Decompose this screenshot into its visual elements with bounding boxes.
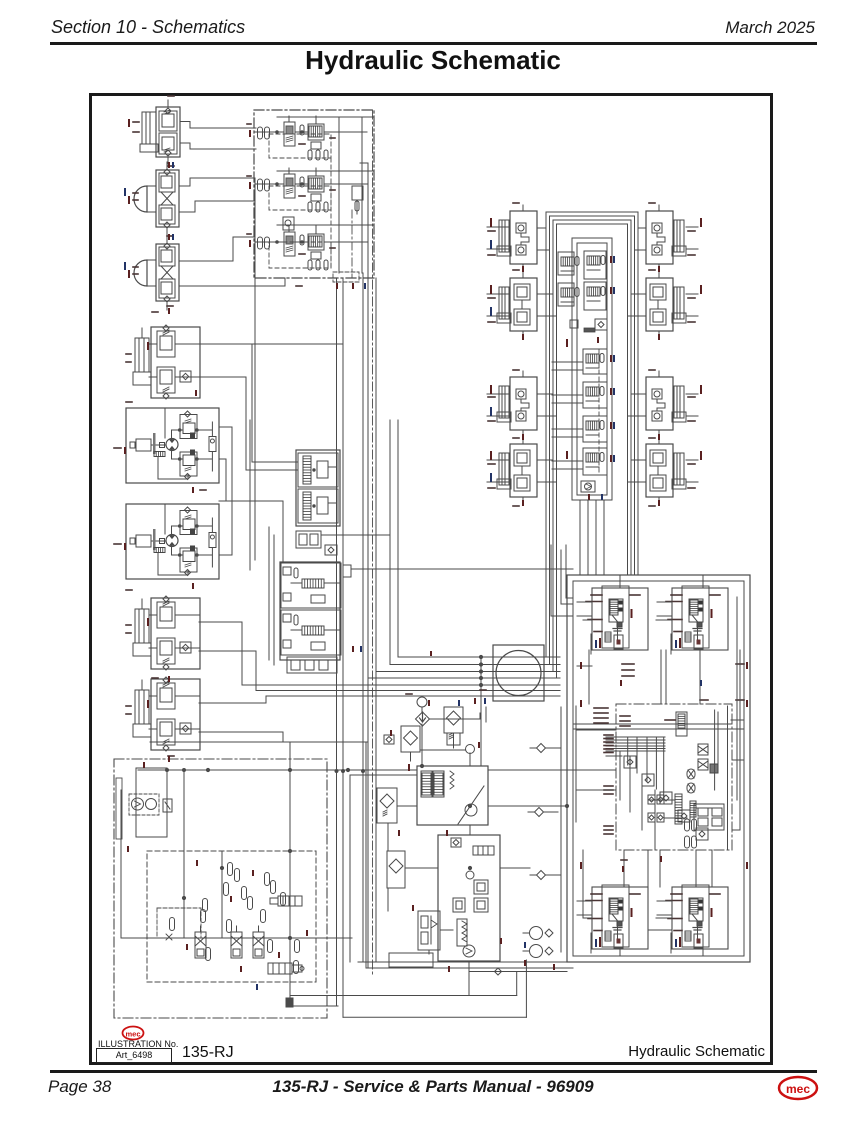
charge pump P1 [466, 745, 475, 754]
wire [468, 961, 470, 996]
directional valve DV1 [281, 563, 341, 608]
cascade check valves [624, 756, 636, 768]
valve stack outer frame [572, 238, 612, 500]
axle lock cylinder block CYL2 [126, 325, 200, 399]
stack label block [584, 328, 595, 332]
manifold bottom port box [333, 272, 359, 282]
shuttle row [473, 846, 494, 855]
tank return junction [286, 998, 293, 1007]
pilot capsule A [687, 769, 695, 779]
gear pump P3 [132, 798, 144, 810]
wire [120, 790, 122, 938]
wire [487, 293, 510, 295]
wire [582, 850, 584, 918]
wire [623, 850, 625, 887]
wire [199, 651, 256, 691]
wire [487, 226, 510, 228]
solenoid block SB2 [453, 898, 465, 912]
slave cylinder block CYL9 [646, 205, 695, 270]
boom section valve SV3 [584, 251, 606, 279]
small box [389, 953, 433, 967]
port labels tank [143, 762, 145, 768]
pilot capsule B [687, 783, 695, 793]
suction strainer box [147, 851, 316, 982]
return filter F1 [416, 712, 430, 726]
wire [200, 343, 343, 345]
brake release valve BV2 [231, 926, 242, 958]
tiny port labels [594, 707, 608, 709]
check pair B [648, 813, 655, 822]
brake cylinder block CYL4 [126, 677, 200, 751]
rotate section valve SV7 [583, 382, 607, 408]
pump pair box [129, 794, 159, 815]
test port block [343, 565, 351, 577]
brake release valve BV1 [195, 926, 206, 958]
level section valve SV9 [583, 448, 607, 475]
filter F3 [401, 726, 420, 752]
capsule pair A [685, 819, 690, 831]
outrigger control enclosure [567, 575, 750, 962]
mec logo illustration tag [123, 1027, 144, 1040]
coupler D3 [537, 871, 546, 880]
port labels manifold [249, 130, 251, 137]
directional valve DV2 [281, 610, 341, 655]
filter F5 [387, 851, 405, 888]
reservoir frame [136, 768, 167, 837]
filter F2 [444, 707, 463, 733]
wire [583, 619, 592, 621]
wire [421, 724, 423, 766]
coupler D1 [537, 744, 546, 753]
wire [199, 696, 266, 703]
wire [179, 178, 255, 186]
coupling CP1 [163, 799, 172, 812]
power unit enclosure [114, 759, 327, 1018]
spring relief coil [462, 921, 467, 942]
wire [219, 501, 283, 562]
boom section valve SV2 [558, 252, 579, 275]
valve bar B [690, 801, 696, 817]
manifold section row 3 [247, 226, 367, 270]
wire [480, 657, 482, 766]
manifold row2 pilot box [269, 186, 331, 210]
wire [537, 227, 546, 229]
relief valve RV1 [581, 481, 595, 492]
wire [389, 420, 391, 665]
manifold comb wires [606, 736, 665, 738]
outrigger cylinder block LF [577, 586, 648, 654]
wire [180, 122, 256, 129]
wire [619, 751, 621, 800]
solenoid block SB3 [474, 898, 488, 912]
solenoid valve SV10 [676, 712, 687, 736]
wire [358, 961, 573, 963]
check valve CK1 [384, 735, 394, 744]
wire [219, 523, 232, 555]
outrigger cylinder block RF [657, 586, 728, 654]
steer cylinder block CYL3 [126, 596, 200, 670]
wire [336, 278, 338, 1006]
coupler D2 [535, 808, 544, 817]
wire [183, 770, 185, 938]
wire [397, 805, 417, 807]
master cylinder block CYL10 [646, 272, 695, 337]
dual check valve block [296, 531, 321, 548]
junction dots [206, 768, 209, 771]
wire [138, 769, 417, 771]
jib section valve SV5 [584, 282, 606, 310]
port labels bottom center [408, 764, 410, 771]
port labels left blocks2 [168, 162, 170, 168]
wire [577, 729, 616, 731]
shuttle valve SH1 [325, 545, 337, 555]
wire [179, 237, 254, 261]
drive motor right M4 [114, 504, 219, 579]
solenoid block SB1 [474, 880, 488, 894]
proportional valve PV2 [298, 489, 338, 523]
pilot check valve PC1 [595, 319, 607, 330]
crossline relief RV3 [698, 759, 708, 770]
pilot accumulators [228, 863, 233, 876]
wire [219, 427, 232, 523]
solenoid valve SV1 [352, 186, 363, 200]
outrigger cylinder block RR [657, 885, 728, 953]
manifold dashed rail [330, 158, 332, 268]
inner sub box [157, 908, 201, 938]
jib cylinder block CYL5 [488, 205, 537, 270]
capsule pair B [685, 836, 690, 848]
wire [150, 741, 368, 743]
selector valve block [694, 804, 724, 830]
wire [121, 937, 168, 939]
manifold row1 pilot box [269, 134, 331, 158]
port labels left column [128, 119, 130, 127]
wire [487, 459, 510, 461]
wire [537, 459, 553, 461]
outrigger valve manifold [616, 704, 732, 850]
wire [606, 755, 622, 757]
wire [367, 163, 369, 968]
hand pump HP1 [418, 911, 440, 950]
pressure gauge G1 [417, 697, 427, 707]
proportional valve bank frame [296, 450, 340, 526]
svg-text:mec: mec [125, 1030, 140, 1039]
port id labels [168, 95, 174, 97]
wire [537, 293, 553, 295]
gauge G2 [466, 871, 474, 879]
wire [545, 500, 547, 657]
main control manifold enclosure [254, 110, 374, 278]
crossline relief RV2 [698, 744, 708, 755]
port labels swivel [352, 646, 354, 652]
manifold section row 2 [247, 168, 367, 212]
main pump assembly [417, 766, 488, 825]
outrigger cylinder block LR [577, 885, 648, 953]
rotary swivel union SW1 [493, 645, 544, 701]
solenoid pair [710, 764, 718, 773]
platform section valve SV8 [583, 416, 607, 442]
wire [714, 710, 716, 790]
boom lift cylinder block CYL1 [133, 100, 180, 164]
check pair A [648, 795, 655, 804]
manifold inner rails [338, 117, 340, 273]
aux pump group frame [438, 835, 500, 961]
wire [551, 545, 573, 616]
port labels pump top [428, 700, 430, 706]
wire [537, 393, 553, 395]
jib rotate motor M2 [133, 236, 179, 310]
wire [573, 723, 731, 725]
pressure reducing valve PR1 [283, 217, 294, 230]
upper boom cylinder block CYL7 [488, 371, 537, 436]
proportional valve PV1 [298, 453, 338, 487]
wire [546, 212, 638, 575]
drive motor left M3 [114, 408, 219, 483]
stack dashed rail [598, 349, 600, 475]
wire [660, 650, 662, 704]
tiny port labels [622, 663, 634, 665]
jib section valve SV4 [558, 283, 579, 306]
boundary dash-dot [372, 110, 374, 975]
wire [199, 732, 283, 742]
lower boom cylinder block CYL8 [488, 438, 537, 503]
leveling cylinder block CYL12 [646, 438, 695, 503]
wire [387, 823, 389, 851]
telescope section valve SV6 [583, 349, 607, 374]
svg-text:mec: mec [786, 1082, 810, 1096]
wire [588, 650, 590, 704]
auxiliary valve bank frame [280, 562, 340, 660]
wire [579, 500, 581, 575]
manifold row3 pilot box [269, 242, 331, 268]
hand valve HV1 [278, 896, 302, 906]
pilot valve PV3 [451, 838, 461, 847]
port labels outrigger box [580, 662, 582, 669]
tiny port labels [604, 734, 613, 736]
hand valve HV2 [268, 963, 292, 974]
wire [293, 1005, 338, 1007]
wire [398, 656, 560, 658]
valve bar A [675, 794, 682, 824]
mec logo footer [779, 1077, 817, 1099]
extension cylinder block CYL11 [646, 371, 695, 436]
wire [199, 622, 242, 685]
charge filter F4 [377, 788, 397, 823]
emergency pump EP1 [530, 927, 543, 940]
stack labels [566, 339, 568, 347]
aux pump P2 [463, 945, 475, 957]
manifold section row 1 [247, 116, 367, 160]
wire [487, 393, 510, 395]
gear pump P4 [146, 799, 157, 810]
wire [200, 377, 298, 470]
port labels right section2 [522, 266, 524, 272]
telescope cylinder block CYL6 [488, 272, 537, 337]
wire [254, 178, 256, 560]
brake release valve BV3 [253, 926, 264, 958]
platform rotate motor M1 [133, 162, 179, 236]
stack left stubs [552, 361, 583, 363]
port labels right section [490, 218, 492, 227]
flow divider FD1 [287, 657, 337, 673]
